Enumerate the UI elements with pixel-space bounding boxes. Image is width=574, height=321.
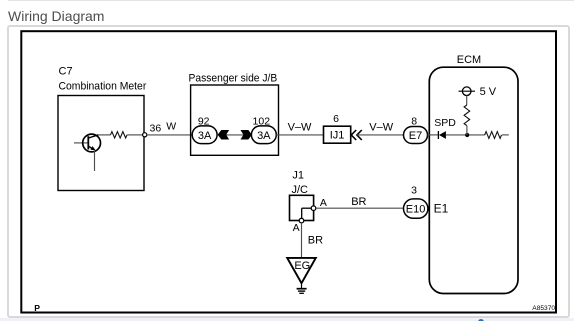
node: J1 terminal A (bottom, open circle) xyxy=(299,218,304,223)
svg-text:3A: 3A xyxy=(198,130,212,142)
net label E1 xyxy=(434,202,449,216)
connector C7 Combination Meter label xyxy=(59,66,147,93)
terminal E10 stadium xyxy=(404,199,428,218)
svg-text:ECM: ECM xyxy=(457,54,481,66)
arrow: J/B internal link left xyxy=(218,130,230,139)
svg-text:3: 3 xyxy=(411,185,417,197)
svg-text:W: W xyxy=(166,121,176,133)
wire color label BR xyxy=(308,235,323,247)
svg-text:BR: BR xyxy=(351,196,366,208)
value label 5 V xyxy=(480,86,497,98)
wire: node 36 to J/B terminal 92 xyxy=(147,134,193,136)
svg-text:J1: J1 xyxy=(292,170,304,182)
terminal 3A (102) stadium xyxy=(251,126,276,144)
junction connector IJ1 xyxy=(324,126,351,143)
power symbol 5V (circle with bar) xyxy=(459,87,476,96)
arrow: SPD input (bar + solid triangle) xyxy=(438,131,446,139)
junction (solid dot) xyxy=(465,133,469,137)
svg-text:6: 6 xyxy=(333,113,339,125)
terminal 3A (92) stadium xyxy=(192,126,217,144)
net label SPD xyxy=(434,117,456,129)
resistor (in meter) xyxy=(111,132,128,138)
resistor (pull-up, vertical) xyxy=(464,105,470,126)
wire: E7 into ECM xyxy=(428,134,439,136)
wire: resistor stub end xyxy=(502,134,509,136)
wire: between J/B terminals xyxy=(225,134,244,136)
ground symbol xyxy=(297,283,307,293)
svg-text:A: A xyxy=(320,197,327,209)
wire: transistor collector to resistor xyxy=(99,134,111,136)
label P xyxy=(34,303,40,313)
svg-text:P: P xyxy=(34,303,40,313)
wire: resistor to junction xyxy=(466,126,468,135)
junction connector J1 J/C labels xyxy=(292,170,309,196)
svg-text:E1: E1 xyxy=(434,202,449,216)
ground point EG (triangle) xyxy=(287,258,316,283)
svg-text:IJ1: IJ1 xyxy=(330,130,345,142)
svg-text:Combination Meter: Combination Meter xyxy=(59,81,147,93)
svg-text:V–W: V–W xyxy=(288,122,312,134)
pin number 8 xyxy=(411,115,417,127)
pin number 36 and wire color W xyxy=(150,121,177,135)
svg-text:A: A xyxy=(293,222,300,234)
svg-text:J/C: J/C xyxy=(292,184,309,196)
wire: resistor to node 36 xyxy=(127,134,143,136)
pin label A (bottom) xyxy=(293,222,300,234)
wire: IJ1 to ECM E7 (V-W) xyxy=(357,134,404,136)
svg-text:V–W: V–W xyxy=(369,122,393,134)
resistor (series, horizontal in ECM) xyxy=(485,132,502,139)
junction connector J1 box xyxy=(290,195,314,220)
pin label A (right) xyxy=(320,197,327,209)
combination meter box C7 xyxy=(58,96,144,191)
passenger side J/B box xyxy=(191,85,279,155)
arrow: double chevron into IJ1 xyxy=(351,130,362,140)
svg-text:8: 8 xyxy=(411,115,417,127)
arrow: J/B internal link right xyxy=(241,130,253,139)
wire color label V-W xyxy=(369,122,393,134)
wire: J/B 102 to IJ1 (V-W) xyxy=(276,134,323,136)
pin number 92 xyxy=(198,116,210,128)
svg-text:A85370: A85370 xyxy=(532,305,555,312)
wire: 5V to pull-up resistor xyxy=(466,96,468,106)
node: J1 terminal A (right, open circle) xyxy=(311,206,316,211)
svg-text:Passenger side J/B: Passenger side J/B xyxy=(189,73,278,85)
wire color label BR xyxy=(351,196,366,208)
node: meter pin 36 (open circle on box edge) xyxy=(143,133,147,137)
label A85370 xyxy=(532,305,555,312)
svg-text:5 V: 5 V xyxy=(480,86,497,98)
svg-text:C7: C7 xyxy=(59,66,73,78)
svg-text:E10: E10 xyxy=(406,204,426,216)
wire color label V-W xyxy=(288,122,312,134)
svg-text:E7: E7 xyxy=(409,130,422,142)
pin number 3 xyxy=(411,185,417,197)
pin number 102 xyxy=(253,116,271,128)
Passenger side J/B label xyxy=(189,73,278,85)
ECM box (rounded) xyxy=(429,67,518,293)
wire: J1 down to ground (BR) xyxy=(301,223,303,258)
pin number 6 xyxy=(333,113,339,125)
svg-text:36: 36 xyxy=(150,123,162,135)
wire: SPD arrow to junction xyxy=(446,134,485,136)
terminal E7 stadium xyxy=(404,127,428,144)
svg-text:BR: BR xyxy=(308,235,323,247)
wire: J1 to E10 (BR) xyxy=(316,207,404,209)
transistor Q1 (speed sensor output, in meter) xyxy=(74,134,101,171)
ECM label xyxy=(457,54,481,66)
svg-text:EG: EG xyxy=(294,260,310,272)
svg-text:SPD: SPD xyxy=(434,117,456,129)
svg-text:3A: 3A xyxy=(257,130,271,142)
